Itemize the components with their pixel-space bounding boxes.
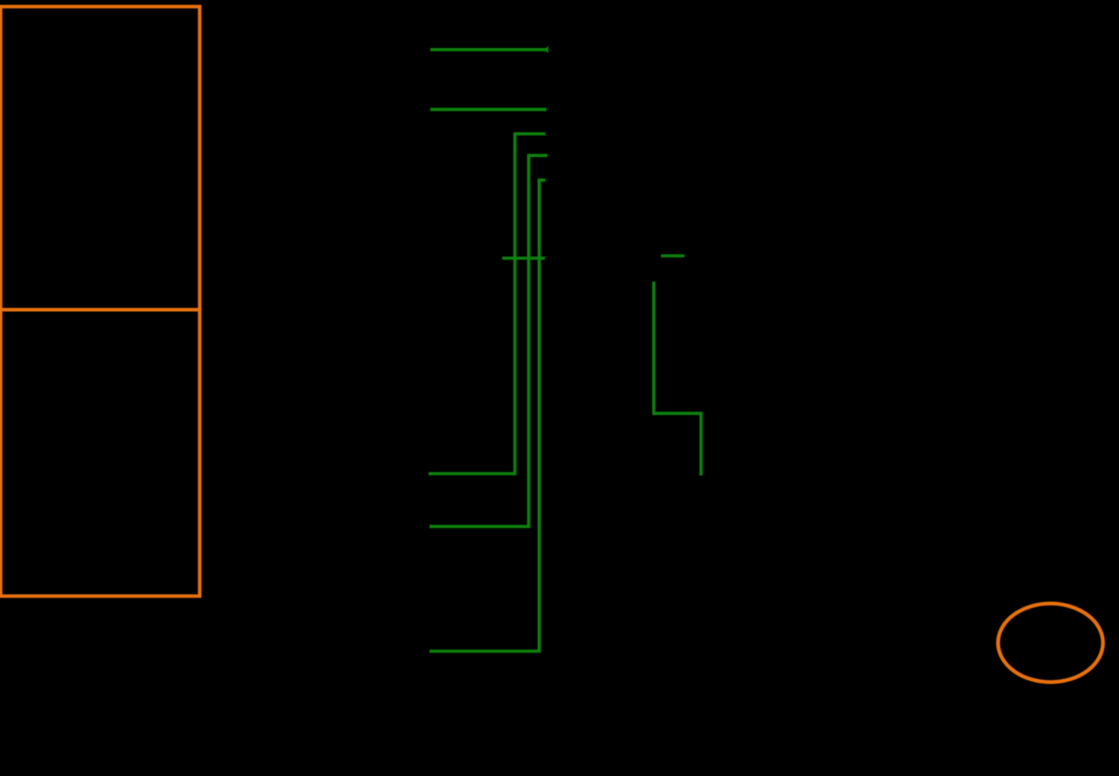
wire W1: [430, 48, 547, 51]
wire W8: [654, 282, 701, 476]
wire W3: [429, 134, 546, 474]
wire W6: [502, 257, 545, 260]
pin tick at W1 end: [547, 47, 549, 53]
wire W4: [430, 156, 548, 527]
highlight ellipse E1: [998, 604, 1103, 683]
wire W7: [661, 254, 685, 257]
sheet S1 upper block: [1, 7, 200, 310]
sheet S2 lower block: [1, 310, 200, 596]
wire W2: [430, 108, 546, 111]
wire W5: [430, 180, 546, 651]
